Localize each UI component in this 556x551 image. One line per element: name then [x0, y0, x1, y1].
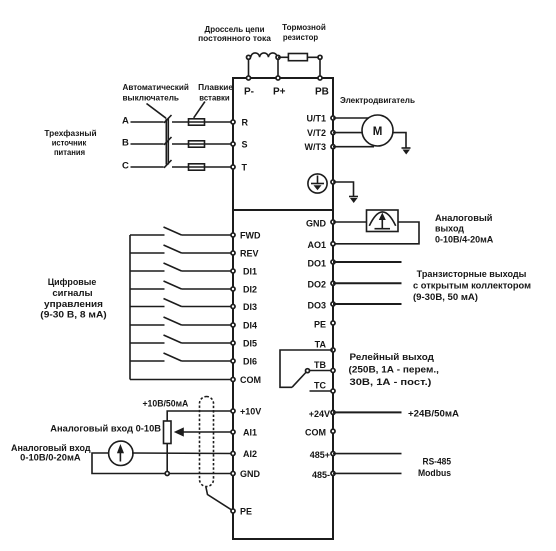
svg-text:FWD: FWD: [240, 231, 261, 241]
breaker linkage QF: [165, 119, 167, 165]
svg-text:0-10В/0-20мА: 0-10В/0-20мА: [20, 453, 81, 463]
svg-text:(250В, 1А - перем.,: (250В, 1А - перем.,: [349, 365, 439, 375]
fuse FU3: [189, 164, 205, 170]
terminal TC: [331, 389, 335, 393]
svg-text:485-: 485-: [312, 470, 330, 480]
svg-text:DI2: DI2: [243, 285, 257, 295]
svg-text:Транзисторные выходы: Транзисторные выходы: [417, 269, 527, 279]
fuse pointer line: [194, 102, 205, 118]
wire U/T1 to motor: [333, 117, 368, 119]
svg-text:T: T: [242, 162, 248, 172]
terminal COM left: [231, 377, 235, 381]
ground PE: [349, 196, 358, 198]
svg-text:Modbus: Modbus: [418, 468, 451, 478]
svg-text:GND: GND: [306, 219, 327, 229]
terminal PE right: [331, 321, 335, 325]
wire relay common: [280, 350, 333, 387]
wire fuse to T: [189, 166, 234, 168]
svg-text:A: A: [122, 115, 129, 126]
breaker blade B: [164, 137, 172, 145]
svg-text:PB: PB: [315, 87, 329, 98]
wire AI1: [182, 431, 233, 433]
wire DI1 right: [182, 270, 234, 272]
switch DI3: [164, 299, 182, 307]
wire FWD right: [182, 234, 234, 236]
wire +24V stub: [333, 411, 402, 413]
terminal DI6: [231, 359, 235, 363]
svg-text:M: M: [373, 126, 383, 138]
terminal REV: [231, 251, 235, 255]
ground motor: [402, 147, 411, 149]
svg-text:(9-30В, 50 мА): (9-30В, 50 мА): [413, 292, 478, 302]
switch DI4: [164, 317, 182, 325]
terminal GND left: [231, 471, 235, 475]
svg-text:Тормозной: Тормозной: [282, 23, 326, 32]
svg-text:Электродвигатель: Электродвигатель: [340, 95, 415, 105]
wire DO3 stub: [333, 303, 402, 305]
svg-text:выход: выход: [435, 224, 464, 234]
wire DI3 right: [182, 306, 234, 308]
protective earth circle symbol: [308, 174, 327, 193]
svg-text:управления: управления: [44, 299, 103, 309]
terminal GND right: [331, 220, 335, 224]
wire DI2 left: [130, 288, 165, 290]
svg-text:Цифровые: Цифровые: [48, 277, 97, 287]
svg-text:V/T2: V/T2: [307, 128, 326, 138]
terminal DO3: [331, 302, 335, 306]
terminal +24V: [331, 410, 335, 414]
wire DO2 stub: [333, 282, 402, 284]
fuse FU2: [189, 141, 205, 147]
svg-text:C: C: [122, 160, 129, 171]
wire DI3 left: [130, 306, 165, 308]
wire P+ to resistor: [278, 56, 288, 58]
relay blade K1: [292, 373, 306, 388]
wire A to fuse: [172, 121, 189, 123]
wire AI2: [132, 452, 233, 455]
terminal DI1: [231, 269, 235, 273]
terminal AO1: [331, 242, 335, 246]
wire W/T3 to motor: [333, 146, 374, 148]
svg-text:TC: TC: [314, 380, 326, 390]
svg-text:постоянного тока: постоянного тока: [198, 34, 271, 43]
wire PE to ground: [333, 182, 354, 197]
wire TC stub: [310, 390, 334, 392]
svg-text:COM: COM: [240, 375, 261, 385]
current source symbol: [109, 441, 133, 465]
node PB top: [318, 55, 322, 59]
inverter block U1: [233, 78, 333, 539]
cable shield: [200, 397, 214, 487]
terminal W/T3: [331, 145, 335, 149]
wire DI4 right: [182, 324, 234, 326]
svg-text:Аналоговый: Аналоговый: [435, 213, 493, 223]
wire FWD left: [130, 234, 165, 236]
node P+ top: [276, 55, 280, 59]
wire P- riser: [248, 57, 250, 78]
svg-text:вставки: вставки: [199, 94, 229, 103]
svg-text:Аналоговый вход: Аналоговый вход: [11, 443, 91, 453]
wire phase C: [131, 166, 164, 168]
terminal V/T2: [331, 131, 335, 135]
wire phase A: [131, 121, 164, 123]
wire resistor to PB corner: [307, 57, 320, 78]
svg-text:питания: питания: [54, 147, 85, 157]
wire V/T2 to motor: [333, 132, 362, 134]
terminal DI3: [231, 304, 235, 308]
wire DI4 left: [130, 324, 165, 326]
svg-text:Аналоговый вход 0-10В: Аналоговый вход 0-10В: [50, 423, 161, 433]
svg-text:U/T1: U/T1: [306, 114, 326, 124]
svg-text:R: R: [242, 117, 249, 127]
braking resistor R1: [288, 54, 307, 61]
svg-text:сигналы: сигналы: [52, 288, 93, 298]
terminal 485+: [331, 452, 335, 456]
svg-text:DO1: DO1: [307, 258, 326, 268]
switch REV: [164, 245, 182, 253]
svg-text:+10В/50мА: +10В/50мА: [142, 398, 188, 408]
svg-text:Релейный выход: Релейный выход: [350, 352, 435, 362]
junction potentiometer GND: [165, 471, 169, 475]
wire fuse to R: [189, 121, 234, 123]
terminal DI4: [231, 323, 235, 327]
terminal PE top: [331, 180, 335, 184]
svg-text:DI5: DI5: [243, 339, 257, 349]
svg-text:AI1: AI1: [243, 428, 257, 438]
terminal TA: [331, 348, 335, 352]
svg-text:P+: P+: [273, 87, 286, 98]
terminal AI2: [231, 451, 235, 455]
switch FWD: [164, 227, 182, 235]
svg-text:DO2: DO2: [307, 280, 326, 290]
choke L1: [251, 53, 277, 57]
breaker blade A: [164, 115, 172, 123]
wire DI5 right: [182, 342, 234, 344]
svg-text:DI6: DI6: [243, 357, 257, 367]
terminal TB: [331, 368, 335, 372]
svg-text:DI4: DI4: [243, 321, 257, 331]
svg-text:30В, 1А - пост.): 30В, 1А - пост.): [350, 377, 432, 387]
switch DI1: [164, 263, 182, 271]
wire potentiometer bottom: [166, 444, 168, 474]
wire DI1 left: [130, 270, 165, 272]
wire C to fuse: [172, 166, 189, 168]
wire meter to AO1: [333, 222, 419, 244]
wire DI6 right: [182, 360, 234, 362]
svg-text:GND: GND: [240, 469, 261, 479]
svg-text:выключатель: выключатель: [123, 94, 180, 103]
digital input bus: [129, 235, 131, 380]
wire TB: [310, 370, 333, 372]
svg-text:+24В/50мА: +24В/50мА: [408, 409, 460, 419]
wire P+ riser: [277, 57, 279, 78]
terminal 485-: [331, 471, 335, 475]
wire DI6 left: [130, 360, 165, 362]
svg-text:Дроссель цепи: Дроссель цепи: [205, 25, 265, 34]
switch DI5: [164, 335, 182, 343]
svg-text:TB: TB: [314, 360, 326, 370]
fuse FU1: [189, 119, 205, 125]
wire COM row: [130, 379, 233, 381]
svg-text:RS-485: RS-485: [423, 456, 452, 466]
svg-text:+24V: +24V: [309, 409, 330, 419]
terminal R: [231, 120, 235, 124]
svg-text:COM: COM: [305, 428, 326, 438]
wire fuse to S: [189, 143, 234, 145]
svg-text:PE: PE: [314, 319, 326, 329]
terminal T: [231, 165, 235, 169]
svg-text:Плавкие: Плавкие: [198, 83, 233, 92]
terminal DI5: [231, 341, 235, 345]
analog output meter P1: [367, 210, 399, 232]
terminal COM right: [331, 429, 335, 433]
svg-text:485+: 485+: [310, 450, 330, 460]
svg-text:TA: TA: [315, 340, 327, 350]
svg-text:P-: P-: [244, 87, 254, 98]
svg-text:AI2: AI2: [243, 449, 257, 459]
wire REV right: [182, 252, 234, 254]
wire shield to PE: [206, 487, 233, 511]
svg-text:+10V: +10V: [240, 407, 261, 417]
wire GND to meter: [333, 221, 367, 223]
svg-text:источник: источник: [52, 138, 87, 148]
svg-text:DI3: DI3: [243, 302, 257, 312]
breaker blade C: [164, 160, 172, 168]
terminal PB: [318, 76, 322, 80]
wire current source to GND: [92, 453, 233, 474]
terminal AI1: [231, 430, 235, 434]
svg-text:DI1: DI1: [243, 267, 257, 277]
svg-text:DO3: DO3: [307, 300, 326, 310]
svg-text:Автоматический: Автоматический: [123, 83, 189, 92]
wire REV left: [130, 252, 165, 254]
motor M1: [362, 115, 393, 146]
svg-text:0-10В/4-20мА: 0-10В/4-20мА: [435, 235, 494, 245]
wire +10V: [167, 411, 233, 421]
wire DO1 stub: [333, 261, 402, 263]
terminal +10V: [231, 409, 235, 413]
svg-text:Трехфазный: Трехфазный: [44, 128, 96, 138]
terminal S: [231, 142, 235, 146]
switch DI6: [164, 353, 182, 361]
potentiometer RP1: [164, 421, 172, 444]
terminal P-: [246, 76, 250, 80]
svg-text:(9-30 В, 8 мА): (9-30 В, 8 мА): [40, 309, 106, 319]
arrow into potentiometer: [174, 427, 184, 436]
node P- top: [247, 55, 251, 59]
svg-text:S: S: [242, 139, 248, 149]
switch DI2: [164, 281, 182, 289]
terminal P+: [276, 76, 280, 80]
wire DI5 left: [130, 342, 165, 344]
terminal DI2: [231, 287, 235, 291]
wire DI2 right: [182, 288, 234, 290]
svg-text:W/T3: W/T3: [305, 142, 327, 152]
terminal U/T1: [331, 116, 335, 120]
svg-text:AO1: AO1: [307, 240, 326, 250]
svg-text:REV: REV: [240, 249, 259, 259]
wire motor to ground: [393, 133, 406, 148]
relay contact node: [306, 369, 310, 373]
terminal FWD: [231, 233, 235, 237]
svg-text:резистор: резистор: [283, 33, 318, 42]
breaker pointer line: [147, 104, 167, 119]
wire phase B: [131, 143, 164, 145]
wire 485+ stub: [333, 453, 402, 455]
block section divider: [233, 209, 333, 211]
terminal DO2: [331, 281, 335, 285]
wire 485- stub: [333, 472, 402, 474]
terminal PE left: [231, 509, 235, 513]
svg-text:с открытым коллектором: с открытым коллектором: [413, 281, 531, 291]
wire B to fuse: [172, 143, 189, 145]
terminal DO1: [331, 260, 335, 264]
svg-text:PE: PE: [240, 507, 252, 517]
svg-text:B: B: [122, 137, 129, 148]
